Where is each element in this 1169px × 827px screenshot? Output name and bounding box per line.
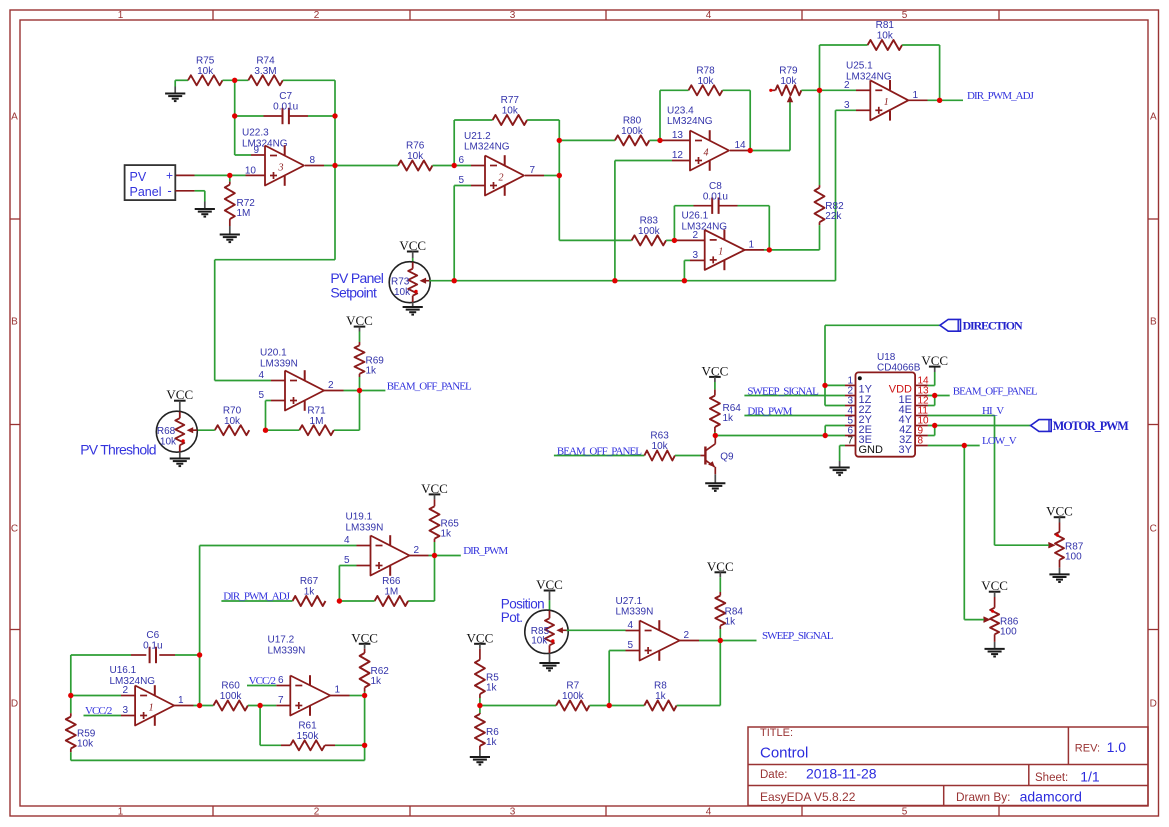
svg-text:R71: R71	[307, 405, 326, 416]
svg-text:10k: 10k	[224, 416, 241, 427]
svg-text:DIRECTION: DIRECTION	[963, 318, 1023, 332]
svg-text:U25.1: U25.1	[846, 61, 873, 72]
svg-text:1: 1	[913, 90, 919, 101]
svg-text:100: 100	[1000, 626, 1017, 637]
svg-text:1.0: 1.0	[1107, 739, 1127, 755]
svg-text:1: 1	[118, 10, 124, 21]
svg-text:0.01u: 0.01u	[273, 102, 298, 113]
svg-text:3: 3	[278, 162, 284, 173]
svg-text:13: 13	[672, 130, 684, 141]
svg-text:1k: 1k	[371, 676, 383, 687]
svg-text:Sheet:: Sheet:	[1035, 772, 1068, 784]
svg-text:R70: R70	[223, 405, 242, 416]
svg-text:10k: 10k	[531, 635, 548, 646]
svg-text:R79: R79	[779, 66, 798, 77]
svg-text:1k: 1k	[486, 682, 498, 693]
svg-text:U23.4: U23.4	[667, 106, 694, 117]
svg-text:DIR_PWM_ADJ: DIR_PWM_ADJ	[223, 590, 291, 602]
svg-text:LM339N: LM339N	[268, 646, 306, 657]
svg-text:4: 4	[706, 10, 712, 21]
svg-text:22k: 22k	[825, 211, 842, 222]
svg-text:R68: R68	[157, 426, 176, 437]
svg-text:8: 8	[310, 155, 316, 166]
svg-text:1k: 1k	[655, 691, 667, 702]
svg-text:1k: 1k	[304, 587, 316, 598]
svg-text:1/1: 1/1	[1080, 768, 1100, 784]
svg-text:C6: C6	[146, 630, 159, 641]
svg-text:150k: 150k	[297, 731, 320, 742]
svg-text:Setpoint: Setpoint	[330, 284, 377, 300]
svg-text:DIR_PWM: DIR_PWM	[747, 405, 792, 417]
svg-text:3: 3	[510, 10, 516, 21]
svg-text:5: 5	[258, 390, 264, 401]
svg-text:2: 2	[314, 807, 320, 818]
svg-text:3.3M: 3.3M	[254, 66, 276, 77]
svg-text:1: 1	[178, 695, 184, 706]
svg-text:TITLE:: TITLE:	[760, 727, 793, 739]
svg-text:7: 7	[847, 436, 853, 447]
svg-text:1: 1	[749, 239, 755, 250]
svg-text:R7: R7	[566, 681, 579, 692]
svg-text:DIR_PWM: DIR_PWM	[463, 545, 508, 557]
svg-text:3: 3	[122, 705, 128, 716]
svg-text:R73: R73	[391, 276, 410, 287]
svg-text:100k: 100k	[220, 691, 243, 702]
svg-text:1: 1	[884, 97, 889, 108]
svg-text:R81: R81	[876, 20, 895, 31]
svg-text:10k: 10k	[197, 66, 214, 77]
svg-text:1M: 1M	[310, 416, 324, 427]
svg-text:5: 5	[902, 10, 908, 21]
svg-text:R80: R80	[623, 116, 642, 127]
svg-text:R77: R77	[501, 95, 520, 106]
svg-text:5: 5	[344, 555, 350, 566]
svg-text:R78: R78	[696, 66, 715, 77]
svg-text:1k: 1k	[441, 528, 453, 539]
svg-text:10k: 10k	[407, 151, 424, 162]
svg-text:U26.1: U26.1	[682, 211, 709, 222]
svg-text:8: 8	[918, 436, 924, 447]
svg-text:10k: 10k	[502, 106, 519, 117]
svg-text:CD4066B: CD4066B	[877, 362, 921, 373]
svg-text:6: 6	[278, 675, 284, 686]
svg-text:1: 1	[118, 807, 124, 818]
svg-text:4: 4	[704, 147, 709, 158]
svg-text:SWEEP_SIGNAL: SWEEP_SIGNAL	[762, 630, 834, 642]
svg-text:10k: 10k	[697, 76, 714, 87]
svg-text:U19.1: U19.1	[346, 512, 373, 523]
svg-text:2018-11-28: 2018-11-28	[806, 765, 877, 781]
svg-text:2: 2	[414, 545, 420, 556]
svg-text:R61: R61	[298, 721, 317, 732]
svg-text:3: 3	[510, 807, 516, 818]
svg-text:100k: 100k	[621, 126, 644, 137]
svg-text:C7: C7	[279, 91, 292, 102]
svg-text:D: D	[11, 699, 18, 710]
svg-text:1: 1	[149, 702, 154, 713]
svg-text:2: 2	[328, 380, 334, 391]
svg-text:1M: 1M	[237, 208, 251, 219]
svg-text:PV: PV	[130, 170, 147, 184]
svg-text:C: C	[1150, 524, 1157, 535]
svg-text:DIR_PWM_ADJ: DIR_PWM_ADJ	[967, 90, 1035, 102]
svg-text:4: 4	[344, 535, 350, 546]
svg-text:LM324NG: LM324NG	[846, 71, 892, 82]
svg-text:2: 2	[684, 630, 690, 641]
svg-text:2: 2	[122, 685, 128, 696]
svg-text:5: 5	[458, 175, 464, 186]
svg-text:4: 4	[627, 620, 633, 631]
svg-text:U20.1: U20.1	[260, 348, 287, 359]
svg-text:SWEEP_SIGNAL: SWEEP_SIGNAL	[747, 385, 819, 397]
svg-text:R63: R63	[650, 431, 669, 442]
svg-text:3Y: 3Y	[899, 444, 913, 456]
svg-text:1k: 1k	[366, 365, 378, 376]
svg-text:1k: 1k	[486, 737, 498, 748]
svg-text:U17.2: U17.2	[268, 635, 295, 646]
svg-text:R66: R66	[382, 576, 401, 587]
svg-text:2: 2	[499, 172, 504, 183]
svg-text:4: 4	[706, 807, 712, 818]
svg-text:BEAM_OFF_PANEL: BEAM_OFF_PANEL	[557, 445, 642, 457]
svg-text:1M: 1M	[384, 587, 398, 598]
svg-text:1k: 1k	[723, 413, 735, 424]
svg-text:10k: 10k	[394, 287, 411, 298]
svg-text:GND: GND	[859, 444, 884, 456]
svg-text:-: -	[167, 183, 171, 198]
svg-text:+: +	[166, 169, 173, 183]
svg-text:Q9: Q9	[720, 452, 734, 463]
svg-text:EasyEDA V5.8.22: EasyEDA V5.8.22	[760, 790, 856, 804]
svg-text:R83: R83	[640, 216, 659, 227]
svg-text:B: B	[11, 317, 18, 328]
svg-text:A: A	[1150, 112, 1157, 123]
svg-text:Pot.: Pot.	[501, 610, 523, 625]
svg-text:BEAM_OFF_PANEL: BEAM_OFF_PANEL	[953, 385, 1038, 397]
svg-text:PV Threshold: PV Threshold	[80, 441, 156, 457]
svg-text:C: C	[11, 524, 18, 535]
svg-text:R8: R8	[654, 681, 667, 692]
svg-text:adamcord: adamcord	[1020, 788, 1082, 804]
svg-text:U16.1: U16.1	[110, 665, 137, 676]
svg-text:R75: R75	[196, 56, 215, 67]
svg-text:10: 10	[245, 165, 257, 176]
svg-text:R74: R74	[256, 56, 275, 67]
svg-text:100k: 100k	[638, 226, 661, 237]
svg-text:C8: C8	[709, 181, 722, 192]
svg-text:10k: 10k	[160, 437, 177, 448]
svg-text:Drawn By:: Drawn By:	[956, 790, 1010, 804]
svg-text:9: 9	[253, 145, 259, 156]
svg-text:R76: R76	[406, 141, 425, 152]
svg-text:D: D	[1150, 699, 1157, 710]
svg-text:LM339N: LM339N	[346, 523, 384, 534]
svg-text:7: 7	[278, 695, 284, 706]
svg-text:7: 7	[530, 165, 536, 176]
svg-text:HI_V: HI_V	[982, 405, 1004, 417]
svg-text:1k: 1k	[725, 617, 737, 628]
svg-text:3: 3	[844, 100, 850, 111]
svg-text:3: 3	[692, 250, 698, 261]
svg-text:R67: R67	[300, 576, 319, 587]
svg-text:0.1u: 0.1u	[143, 641, 162, 652]
svg-text:5: 5	[902, 807, 908, 818]
svg-text:5: 5	[627, 640, 633, 651]
svg-text:1: 1	[718, 247, 723, 258]
svg-text:BEAM_OFF_PANEL: BEAM_OFF_PANEL	[387, 380, 472, 392]
svg-text:Date:: Date:	[760, 769, 788, 781]
svg-text:LM324NG: LM324NG	[110, 676, 156, 687]
svg-text:10k: 10k	[652, 441, 669, 452]
svg-text:100k: 100k	[562, 691, 585, 702]
svg-text:LM324NG: LM324NG	[464, 142, 510, 153]
svg-text:LM339N: LM339N	[260, 359, 298, 370]
svg-text:R60: R60	[221, 681, 240, 692]
svg-text:LOW_V: LOW_V	[982, 435, 1017, 447]
svg-text:REV:: REV:	[1075, 742, 1100, 754]
svg-text:1: 1	[335, 685, 341, 696]
svg-text:12: 12	[672, 150, 684, 161]
svg-text:10k: 10k	[877, 31, 894, 42]
svg-text:MOTOR_PWM: MOTOR_PWM	[1053, 419, 1129, 433]
svg-text:2: 2	[314, 10, 320, 21]
svg-text:10k: 10k	[780, 76, 797, 87]
svg-text:LM324NG: LM324NG	[667, 116, 713, 127]
svg-text:Control: Control	[760, 745, 808, 762]
svg-text:U21.2: U21.2	[464, 131, 491, 142]
svg-text:14: 14	[735, 140, 747, 151]
svg-text:4: 4	[258, 370, 264, 381]
svg-text:100: 100	[1065, 552, 1082, 563]
svg-text:A: A	[11, 112, 18, 123]
svg-text:LM339N: LM339N	[616, 606, 654, 617]
svg-text:0.01u: 0.01u	[703, 191, 728, 202]
svg-text:6: 6	[458, 155, 464, 166]
svg-text:10k: 10k	[77, 738, 94, 749]
svg-text:B: B	[1150, 317, 1157, 328]
svg-text:U22.3: U22.3	[242, 128, 269, 139]
svg-text:Panel: Panel	[130, 185, 162, 199]
